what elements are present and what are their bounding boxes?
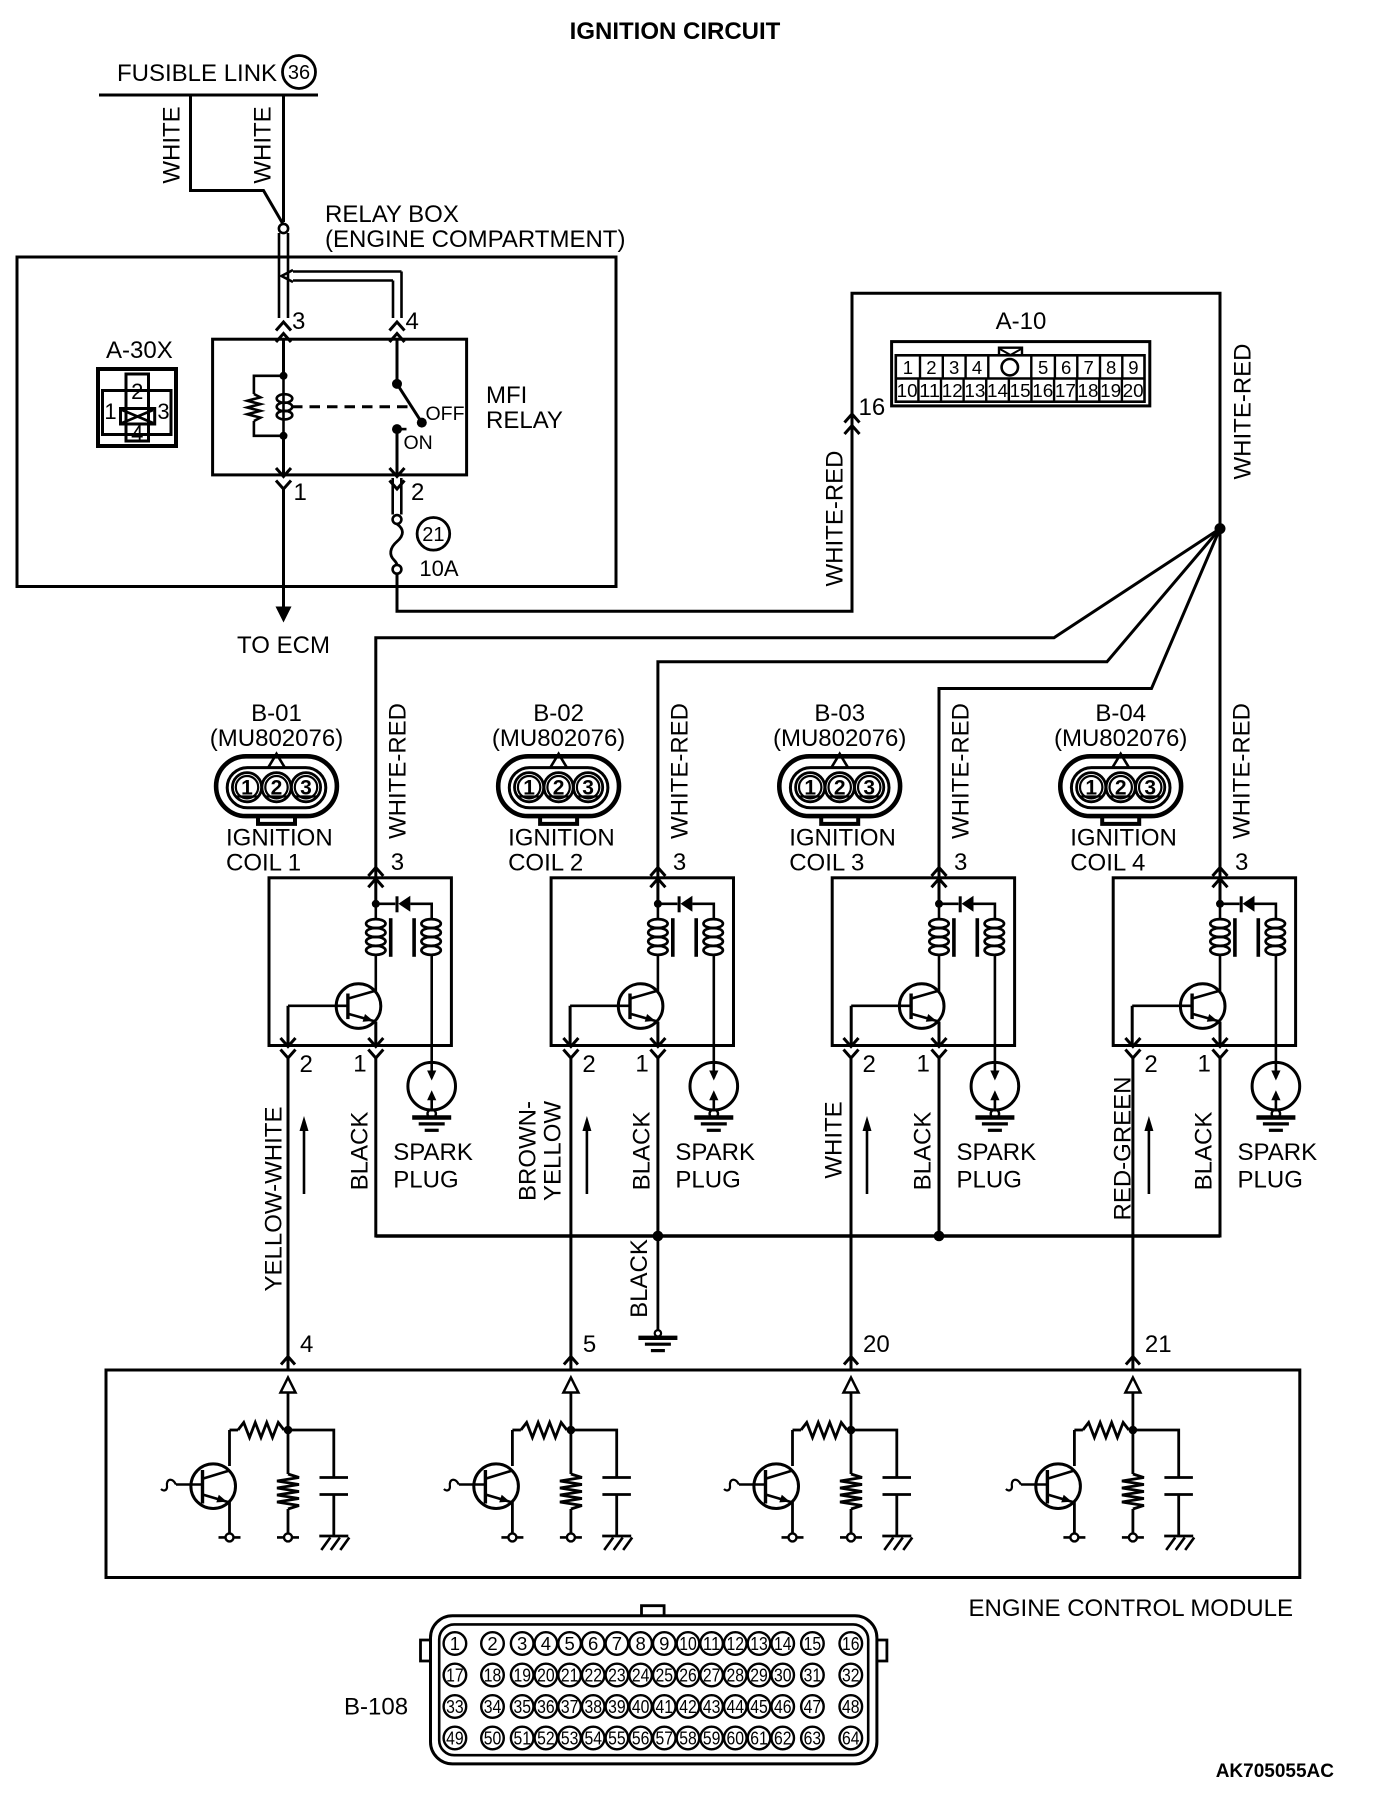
svg-text:WHITE-RED: WHITE-RED xyxy=(948,703,975,839)
coil 4 pin 3 arrows and label xyxy=(1213,868,1228,877)
svg-text:3: 3 xyxy=(157,399,169,424)
connector A-10 body xyxy=(892,342,1150,406)
svg-text:10: 10 xyxy=(679,1633,697,1654)
coil 3 primary winding xyxy=(938,904,941,920)
svg-text:2: 2 xyxy=(926,357,936,378)
svg-text:BLACK: BLACK xyxy=(626,1239,653,1318)
svg-text:IGNITION: IGNITION xyxy=(789,825,896,852)
relay pin 2 arrows and label xyxy=(390,468,405,477)
B-02 terminal 2 xyxy=(544,773,573,802)
coil 4 secondary lead to spark plug xyxy=(1275,955,1278,1078)
svg-text:22: 22 xyxy=(584,1665,602,1686)
svg-text:32: 32 xyxy=(842,1665,860,1686)
pull-up resistor (driver 4) xyxy=(1074,1429,1083,1432)
pull-up resistor (driver 1) xyxy=(230,1429,239,1432)
svg-text:TO ECM: TO ECM xyxy=(237,632,330,659)
coil 1 primary winding xyxy=(374,904,377,920)
svg-text:45: 45 xyxy=(750,1696,768,1717)
coil 4 pin 2 wire inside box xyxy=(1131,1006,1134,1046)
svg-text:WHITE-RED: WHITE-RED xyxy=(384,703,411,839)
svg-text:46: 46 xyxy=(774,1696,792,1717)
svg-text:15: 15 xyxy=(804,1633,822,1654)
svg-text:10A: 10A xyxy=(419,556,458,581)
svg-text:MFI: MFI xyxy=(486,382,527,409)
ignition coil 1 internal circuit box xyxy=(269,878,451,1046)
svg-text:SPARK: SPARK xyxy=(393,1139,473,1166)
svg-text:40: 40 xyxy=(632,1696,650,1717)
svg-text:53: 53 xyxy=(561,1728,579,1749)
svg-text:3: 3 xyxy=(517,1633,527,1654)
svg-text:WHITE: WHITE xyxy=(159,106,186,183)
A-10 pin 16 arrows xyxy=(845,414,860,423)
coil 2 pin 3 arrows and label xyxy=(650,868,665,877)
driver 3 chassis ground xyxy=(882,1535,911,1538)
driver 3 capacitor xyxy=(851,1430,897,1478)
svg-text:28: 28 xyxy=(727,1665,745,1686)
coil 2 transformer core xyxy=(671,918,675,957)
svg-text:21: 21 xyxy=(1145,1331,1172,1358)
svg-text:17: 17 xyxy=(1055,380,1076,401)
connector B-03 oval xyxy=(779,756,900,816)
svg-text:13: 13 xyxy=(750,1633,768,1654)
relay switch xyxy=(392,379,402,389)
ECM pin 21 entry xyxy=(1126,1357,1140,1365)
svg-text:PLUG: PLUG xyxy=(675,1167,740,1194)
svg-text:19: 19 xyxy=(513,1665,531,1686)
svg-text:BLACK: BLACK xyxy=(347,1112,374,1191)
spark plug 2 ground xyxy=(694,1115,733,1119)
svg-text:58: 58 xyxy=(679,1728,697,1749)
spark plug 4 xyxy=(1252,1062,1300,1110)
svg-text:23: 23 xyxy=(608,1665,626,1686)
svg-text:(MU802076): (MU802076) xyxy=(492,725,625,752)
coil 4 pin 2 arrows and label xyxy=(1125,1038,1140,1047)
driver 3 transistor xyxy=(791,1430,794,1466)
coil 4 signal wire direction arrow xyxy=(1148,1128,1151,1194)
svg-text:A-30X: A-30X xyxy=(106,337,173,364)
branch double-line to pin 4 xyxy=(293,270,402,273)
svg-text:4: 4 xyxy=(406,308,419,335)
coil 1 transformer core xyxy=(389,918,393,957)
svg-text:COIL 3: COIL 3 xyxy=(789,850,864,877)
svg-text:WHITE: WHITE xyxy=(821,1101,848,1178)
driver 2 chassis ground xyxy=(602,1535,631,1538)
B-01 terminal 2 xyxy=(262,773,291,802)
svg-text:ENGINE CONTROL MODULE: ENGINE CONTROL MODULE xyxy=(969,1595,1293,1622)
relay actuation dashed line xyxy=(292,405,409,408)
svg-text:B-108: B-108 xyxy=(344,1694,408,1721)
B-02 bottom tab xyxy=(540,816,577,824)
B-04 bottom tab xyxy=(1102,816,1139,824)
relay pin 1 arrows and label xyxy=(276,468,291,477)
relay coil xyxy=(280,372,288,380)
coil 4 power transistor xyxy=(1180,984,1225,1029)
svg-text:11: 11 xyxy=(919,380,940,401)
coil 1 secondary lead to spark plug xyxy=(430,955,433,1078)
svg-text:3: 3 xyxy=(582,777,594,800)
connector B-108 body xyxy=(642,1606,665,1616)
svg-text:26: 26 xyxy=(679,1665,697,1686)
coil 1 supply node xyxy=(374,878,377,904)
svg-text:9: 9 xyxy=(659,1633,669,1654)
svg-text:SPARK: SPARK xyxy=(675,1139,755,1166)
svg-text:3: 3 xyxy=(1144,777,1156,800)
driver 2 capacitor xyxy=(571,1430,617,1478)
svg-text:YELLOW: YELLOW xyxy=(540,1101,567,1201)
fuse element xyxy=(391,524,403,565)
coil 1 pin 1 wire to ground bus xyxy=(374,1058,377,1238)
svg-text:1: 1 xyxy=(294,479,307,506)
svg-text:1: 1 xyxy=(903,357,913,378)
driver 1 capacitor xyxy=(288,1430,334,1478)
svg-text:24: 24 xyxy=(632,1665,650,1686)
svg-text:43: 43 xyxy=(703,1696,721,1717)
A-10 cell grid xyxy=(896,377,1145,379)
svg-text:20: 20 xyxy=(863,1331,890,1358)
svg-text:59: 59 xyxy=(703,1728,721,1749)
coil 2 primary winding xyxy=(657,904,660,920)
ignition coil 4 internal circuit box xyxy=(1113,878,1295,1046)
coil 2 diode xyxy=(658,902,678,905)
svg-text:2: 2 xyxy=(1115,777,1127,800)
svg-text:60: 60 xyxy=(727,1728,745,1749)
svg-text:OFF: OFF xyxy=(426,403,465,425)
svg-text:B-01: B-01 xyxy=(251,700,302,727)
B-03 terminal 3 xyxy=(855,773,884,802)
svg-text:50: 50 xyxy=(484,1728,502,1749)
coil 1 diode xyxy=(376,902,396,905)
coil 3 pin 2 wire inside box xyxy=(850,1006,853,1046)
svg-text:4: 4 xyxy=(972,357,982,378)
svg-text:7: 7 xyxy=(612,1633,622,1654)
driver 4 sense resistor xyxy=(1132,1430,1135,1474)
connector B-02 oval xyxy=(498,756,619,816)
svg-text:62: 62 xyxy=(774,1728,792,1749)
svg-text:8: 8 xyxy=(635,1633,645,1654)
coil 4 primary winding xyxy=(1219,904,1222,920)
svg-text:BLACK: BLACK xyxy=(1191,1112,1218,1191)
driver 4 chassis ground xyxy=(1164,1535,1193,1538)
svg-text:COIL 2: COIL 2 xyxy=(508,850,583,877)
coil 1 pin 2 wire inside box xyxy=(287,1006,290,1046)
svg-text:16: 16 xyxy=(859,394,886,421)
svg-text:42: 42 xyxy=(679,1696,697,1717)
svg-text:11: 11 xyxy=(703,1633,721,1654)
spark plug 1 xyxy=(408,1062,456,1110)
coil 4 secondary winding xyxy=(1266,919,1285,928)
coil 3 pin 2 arrows and label xyxy=(844,1038,859,1047)
svg-text:14: 14 xyxy=(987,380,1008,401)
coil 4 pin 1 wire to ground bus xyxy=(1219,1058,1222,1238)
svg-text:55: 55 xyxy=(608,1728,626,1749)
svg-text:21: 21 xyxy=(561,1665,579,1686)
engine control module box xyxy=(106,1370,1300,1578)
coil 1 pin 2 wire to ECM xyxy=(287,1058,290,1370)
coil 4 pin 1 arrows and label xyxy=(1213,1038,1228,1047)
svg-text:2: 2 xyxy=(553,777,565,800)
coil 4 transformer core xyxy=(1233,918,1237,957)
coil 1 pin 1 arrows and label xyxy=(368,1038,383,1047)
svg-text:3: 3 xyxy=(954,849,967,876)
svg-text:2: 2 xyxy=(1144,1051,1157,1078)
svg-text:2: 2 xyxy=(271,777,283,800)
svg-text:B-04: B-04 xyxy=(1095,700,1146,727)
svg-text:31: 31 xyxy=(804,1665,822,1686)
svg-text:RELAY: RELAY xyxy=(486,407,563,434)
ECM driver circuit 3 xyxy=(847,1426,856,1435)
svg-text:51: 51 xyxy=(513,1728,531,1749)
svg-text:IGNITION CIRCUIT: IGNITION CIRCUIT xyxy=(570,18,781,45)
svg-text:64: 64 xyxy=(842,1728,860,1749)
A-10 keyway symbol xyxy=(999,348,1022,356)
svg-text:52: 52 xyxy=(537,1728,555,1749)
svg-text:10: 10 xyxy=(897,380,918,401)
driver 4 capacitor xyxy=(1133,1430,1179,1478)
coil 4 pin 2 wire to ECM xyxy=(1131,1058,1134,1370)
pull-up resistor (driver 2) xyxy=(512,1429,521,1432)
driver 4 emitter terminal xyxy=(1063,1536,1085,1539)
svg-text:(MU802076): (MU802076) xyxy=(210,725,343,752)
wire: white feed right xyxy=(282,95,285,222)
svg-text:SPARK: SPARK xyxy=(957,1139,1037,1166)
relay pin 4 wire and arrows xyxy=(390,322,405,331)
svg-text:1: 1 xyxy=(353,1051,366,1078)
wire relay pin1 to ECM xyxy=(282,489,285,607)
relay box (engine compartment) outline xyxy=(17,257,616,587)
spark plug 3 ground xyxy=(975,1115,1014,1119)
spark plug 1 ground xyxy=(412,1115,451,1119)
svg-text:2: 2 xyxy=(131,379,143,404)
terminal arrow at branch start xyxy=(282,270,294,282)
svg-text:17: 17 xyxy=(446,1665,464,1686)
svg-text:47: 47 xyxy=(804,1696,822,1717)
coil 2 signal wire direction arrow xyxy=(586,1128,589,1194)
svg-text:BLACK: BLACK xyxy=(910,1112,937,1191)
B-02 terminal 3 xyxy=(574,773,603,802)
ground bus drop wire xyxy=(657,1236,660,1331)
svg-text:14: 14 xyxy=(774,1633,792,1654)
coil 1 power transistor xyxy=(336,984,381,1029)
ignition coil 2 internal circuit box xyxy=(551,878,733,1046)
B-01 terminal 1 xyxy=(232,773,261,802)
svg-text:37: 37 xyxy=(561,1696,579,1717)
coil 3 supply node xyxy=(938,878,941,904)
B-04 terminal 3 xyxy=(1136,773,1165,802)
driver 2 transistor xyxy=(511,1430,514,1466)
svg-text:4: 4 xyxy=(300,1331,313,1358)
svg-text:2: 2 xyxy=(863,1051,876,1078)
coil 3 pin 1 arrows and label xyxy=(932,1038,947,1047)
connector double-line (pin 3 feed) xyxy=(278,233,281,318)
coil 4 supply node xyxy=(1219,878,1222,904)
wire: white feed left xyxy=(191,95,284,224)
svg-text:34: 34 xyxy=(484,1696,502,1717)
svg-text:19: 19 xyxy=(1100,380,1121,401)
coil 2 pin 1 arrows and label xyxy=(650,1038,665,1047)
coil 2 pin 2 wire inside box xyxy=(569,1006,572,1046)
svg-text:1: 1 xyxy=(104,399,116,424)
junction node white-red xyxy=(1215,523,1226,534)
svg-text:16: 16 xyxy=(1032,380,1053,401)
svg-text:15: 15 xyxy=(1010,380,1031,401)
MFI relay box xyxy=(213,339,467,475)
svg-text:1: 1 xyxy=(635,1051,648,1078)
svg-text:2: 2 xyxy=(300,1051,313,1078)
svg-text:3: 3 xyxy=(863,777,875,800)
svg-text:2: 2 xyxy=(411,479,424,506)
svg-text:A-10: A-10 xyxy=(996,308,1047,335)
svg-text:49: 49 xyxy=(446,1728,464,1749)
svg-text:38: 38 xyxy=(584,1696,602,1717)
driver 2 sense resistor xyxy=(570,1430,573,1474)
spark plug 3 xyxy=(971,1062,1019,1110)
svg-text:5: 5 xyxy=(583,1331,596,1358)
coil 3 pin 3 arrows and label xyxy=(932,868,947,877)
svg-text:COIL 1: COIL 1 xyxy=(226,850,301,877)
svg-text:35: 35 xyxy=(513,1696,531,1717)
svg-text:1: 1 xyxy=(804,777,816,800)
svg-text:1: 1 xyxy=(1085,777,1097,800)
coil 3 signal wire direction arrow xyxy=(866,1128,869,1194)
relay coil parallel resistor xyxy=(254,376,284,394)
coil 2 pin 2 arrows and label xyxy=(563,1038,578,1047)
svg-text:3: 3 xyxy=(949,357,959,378)
coil 2 pin 2 wire to ECM xyxy=(569,1058,572,1370)
coil 1 secondary winding xyxy=(421,919,440,928)
svg-text:7: 7 xyxy=(1084,357,1094,378)
svg-text:48: 48 xyxy=(842,1696,860,1717)
svg-text:36: 36 xyxy=(288,62,310,84)
svg-text:4: 4 xyxy=(131,421,143,446)
svg-text:25: 25 xyxy=(656,1665,674,1686)
svg-text:(MU802076): (MU802076) xyxy=(1054,725,1187,752)
ground terminal xyxy=(655,1330,661,1336)
coil 3 secondary winding xyxy=(985,919,1004,928)
svg-text:AK705055AC: AK705055AC xyxy=(1216,1761,1335,1782)
wire: fuse output white-red to A-10 xyxy=(397,293,1220,611)
svg-text:WHITE-RED: WHITE-RED xyxy=(666,703,693,839)
svg-text:36: 36 xyxy=(537,1696,555,1717)
driver 1 chassis ground xyxy=(319,1535,348,1538)
svg-text:20: 20 xyxy=(1123,380,1144,401)
svg-text:5: 5 xyxy=(1038,357,1048,378)
black ground bus xyxy=(376,1234,1220,1237)
coil 2 secondary lead to spark plug xyxy=(712,955,715,1078)
svg-text:WHITE-RED: WHITE-RED xyxy=(822,451,849,587)
coil 2 secondary winding xyxy=(704,919,723,928)
svg-text:63: 63 xyxy=(804,1728,822,1749)
svg-text:SPARK: SPARK xyxy=(1238,1139,1318,1166)
coil 1 pin 2 arrows and label xyxy=(281,1038,296,1047)
svg-text:IGNITION: IGNITION xyxy=(508,825,615,852)
svg-text:1: 1 xyxy=(1198,1051,1211,1078)
svg-text:1: 1 xyxy=(917,1051,930,1078)
B-04 terminal 1 xyxy=(1077,773,1106,802)
svg-text:(ENGINE COMPARTMENT): (ENGINE COMPARTMENT) xyxy=(325,226,625,253)
pull-up resistor (driver 3) xyxy=(793,1429,802,1432)
B-01 terminal 3 xyxy=(291,773,320,802)
svg-text:5: 5 xyxy=(564,1633,574,1654)
svg-text:29: 29 xyxy=(750,1665,768,1686)
svg-text:21: 21 xyxy=(422,524,444,546)
svg-text:3: 3 xyxy=(391,849,404,876)
svg-text:BROWN-: BROWN- xyxy=(515,1101,542,1201)
connector A-30X symbol xyxy=(98,369,176,446)
driver 3 sense resistor xyxy=(850,1430,853,1474)
driver 1 sense resistor xyxy=(287,1430,290,1474)
svg-text:13: 13 xyxy=(964,380,985,401)
svg-text:PLUG: PLUG xyxy=(957,1167,1022,1194)
ECM pin 5 entry xyxy=(564,1357,578,1365)
B-02 terminal 1 xyxy=(515,773,544,802)
coil 3 transformer core xyxy=(952,918,956,957)
circled 36 (fusible link number) xyxy=(283,56,316,89)
svg-text:9: 9 xyxy=(1128,357,1138,378)
svg-text:3: 3 xyxy=(673,849,686,876)
svg-text:COIL 4: COIL 4 xyxy=(1070,850,1145,877)
svg-text:BLACK: BLACK xyxy=(629,1112,656,1191)
connector B-04 oval xyxy=(1060,756,1181,816)
svg-text:57: 57 xyxy=(656,1728,674,1749)
svg-text:B-02: B-02 xyxy=(533,700,584,727)
svg-text:33: 33 xyxy=(446,1696,464,1717)
coil 2 supply node xyxy=(656,878,659,904)
coil 1 pin 3 arrows and label xyxy=(368,868,383,877)
coil 3 diode xyxy=(939,902,959,905)
svg-text:WHITE-RED: WHITE-RED xyxy=(1230,344,1257,480)
svg-text:30: 30 xyxy=(774,1665,792,1686)
svg-text:RELAY BOX: RELAY BOX xyxy=(325,201,459,228)
svg-text:39: 39 xyxy=(608,1696,626,1717)
B-04 terminal 2 xyxy=(1106,773,1135,802)
svg-text:54: 54 xyxy=(584,1728,602,1749)
spark plug 2 xyxy=(690,1062,738,1110)
driver 1 transistor xyxy=(228,1430,231,1466)
svg-text:12: 12 xyxy=(727,1633,745,1654)
svg-text:PLUG: PLUG xyxy=(393,1167,458,1194)
svg-text:16: 16 xyxy=(842,1633,860,1654)
ECM driver circuit 1 xyxy=(284,1426,293,1435)
svg-text:(MU802076): (MU802076) xyxy=(773,725,906,752)
svg-text:IGNITION: IGNITION xyxy=(226,825,333,852)
wire fan to coil 2 xyxy=(658,529,1220,878)
svg-text:56: 56 xyxy=(632,1728,650,1749)
svg-text:ON: ON xyxy=(404,432,433,454)
wire fan to coil 3 xyxy=(939,529,1220,878)
coil 2 power transistor xyxy=(618,984,663,1029)
spark plug 4 ground xyxy=(1256,1115,1295,1119)
svg-text:18: 18 xyxy=(484,1665,502,1686)
svg-text:27: 27 xyxy=(703,1665,721,1686)
svg-text:61: 61 xyxy=(750,1728,768,1749)
driver 1 emitter terminal xyxy=(219,1536,241,1539)
bus bar under fusible link xyxy=(99,94,318,97)
svg-text:3: 3 xyxy=(1235,849,1248,876)
ECM driver circuit 4 xyxy=(1129,1426,1138,1435)
ECM pin 20 entry xyxy=(844,1357,858,1365)
svg-text:IGNITION: IGNITION xyxy=(1070,825,1177,852)
wire fan to coil 1 xyxy=(376,529,1220,878)
svg-text:1: 1 xyxy=(450,1633,460,1654)
svg-text:WHITE: WHITE xyxy=(250,106,277,183)
svg-text:44: 44 xyxy=(727,1696,745,1717)
connector B-01 oval xyxy=(216,756,337,816)
svg-text:2: 2 xyxy=(487,1633,497,1654)
svg-text:PLUG: PLUG xyxy=(1238,1167,1303,1194)
svg-text:18: 18 xyxy=(1078,380,1099,401)
fuse terminal double-line below relay pin 2 xyxy=(391,478,394,515)
relay pin 3 wire and arrows xyxy=(276,322,291,331)
